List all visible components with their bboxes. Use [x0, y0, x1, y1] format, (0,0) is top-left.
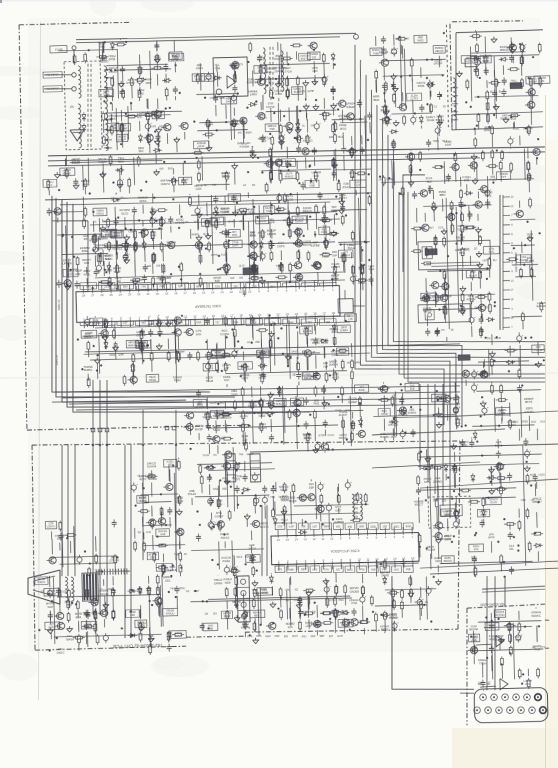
svg-text:C3U: C3U — [215, 285, 220, 288]
svg-text:71M: 71M — [215, 66, 221, 70]
svg-text:H3B: H3B — [310, 184, 315, 188]
svg-text:407: 407 — [430, 226, 435, 229]
svg-text:ZLM47: ZLM47 — [339, 413, 348, 417]
svg-text:B4P: B4P — [148, 322, 154, 326]
wire: verticals into CRT PCB block with junction pads — [87, 378, 181, 639]
svg-text:5DEZ: 5DEZ — [224, 614, 231, 618]
svg-text:LN9: LN9 — [340, 351, 345, 355]
svg-text:+: + — [397, 621, 399, 625]
svg-text:+: + — [267, 495, 269, 499]
svg-text:+: + — [440, 125, 442, 129]
component cluster 13 (discrete parts around x372 y35) — [370, 32, 448, 130]
svg-text:+: + — [522, 333, 524, 337]
svg-text:CTS: CTS — [540, 646, 545, 649]
svg-text:9V5K5: 9V5K5 — [408, 411, 417, 415]
svg-text:24: 24 — [119, 293, 123, 297]
svg-text:GZH: GZH — [196, 187, 202, 191]
svg-text:11: 11 — [239, 290, 243, 294]
svg-text:+: + — [122, 177, 124, 181]
component cluster 28 (discrete parts around x186 y388) — [183, 384, 371, 457]
svg-text:PC: PC — [441, 329, 445, 332]
component cluster 19 (discrete parts around x95 y195) — [93, 191, 187, 290]
svg-text:99V: 99V — [138, 149, 143, 153]
svg-text:L71M9: L71M9 — [525, 259, 534, 263]
svg-text:+: + — [459, 508, 461, 512]
svg-text:96N: 96N — [123, 285, 128, 288]
svg-text:L7D: L7D — [540, 79, 545, 83]
pin header comb — [96, 568, 130, 575]
svg-text:830: 830 — [336, 525, 341, 528]
svg-text:0SR: 0SR — [274, 635, 279, 638]
svg-text:7AF10: 7AF10 — [96, 211, 104, 215]
svg-text:31P: 31P — [230, 277, 235, 280]
svg-text:16: 16 — [277, 538, 281, 542]
wire: horizontal buses around IC801 — [45, 190, 460, 361]
svg-text:TPT: TPT — [501, 175, 506, 179]
svg-text:U8R: U8R — [75, 272, 81, 276]
svg-text:U7UV: U7UV — [327, 434, 334, 437]
svg-text:SG: SG — [283, 219, 287, 222]
svg-text:3VP: 3VP — [332, 253, 338, 257]
svg-text:C76A: C76A — [275, 92, 282, 96]
svg-text:+: + — [236, 564, 238, 568]
svg-text:+: + — [476, 383, 478, 387]
svg-text:FAA: FAA — [369, 267, 375, 271]
svg-text:IC801 TA7698AP: IC801 TA7698AP — [194, 304, 221, 309]
svg-text:EANA9: EANA9 — [537, 304, 547, 308]
component cluster 15 (discrete parts around x372 y128) — [389, 123, 539, 151]
svg-text:NU27C: NU27C — [260, 525, 269, 529]
svg-text:18: 18 — [174, 291, 178, 295]
svg-text:08B: 08B — [208, 626, 213, 630]
deflection yoke DY901 — [27, 570, 74, 605]
svg-text:+: + — [90, 317, 92, 321]
svg-text:PM2: PM2 — [313, 401, 319, 405]
transformer T801 (power) — [64, 61, 114, 152]
svg-text:5P1H: 5P1H — [213, 428, 220, 432]
svg-text:2D: 2D — [443, 105, 446, 108]
svg-text:N92G: N92G — [281, 498, 288, 502]
svg-text:+: + — [490, 188, 492, 192]
svg-text:MPM: MPM — [355, 361, 361, 364]
svg-text:H0T7: H0T7 — [483, 259, 490, 262]
svg-text:LSFBE: LSFBE — [311, 244, 320, 248]
svg-text:BG240: BG240 — [469, 627, 478, 631]
svg-text:+: + — [487, 406, 489, 410]
svg-text:1M: 1M — [204, 613, 208, 616]
svg-text:ESHC: ESHC — [64, 171, 71, 175]
svg-text:BDTFS: BDTFS — [92, 321, 101, 325]
svg-text:TB2: TB2 — [270, 496, 275, 499]
svg-text:4E4: 4E4 — [252, 591, 258, 595]
svg-text:87HC: 87HC — [343, 185, 350, 189]
svg-text:8V: 8V — [347, 362, 350, 365]
svg-text:00R: 00R — [130, 613, 135, 617]
component cluster 26 (discrete parts around x130 y460) — [131, 457, 188, 578]
svg-text:BVLE: BVLE — [348, 246, 355, 250]
svg-text:+: + — [282, 193, 284, 197]
svg-text:2N6KN: 2N6KN — [329, 363, 338, 367]
IF/chroma sub-circuit boxes X401 X402 — [401, 173, 497, 529]
svg-text:3P23: 3P23 — [340, 127, 347, 131]
svg-text:AU4C7: AU4C7 — [146, 475, 156, 479]
svg-text:B28: B28 — [215, 279, 221, 283]
svg-text:DN9L: DN9L — [418, 84, 426, 88]
svg-text:HS8L: HS8L — [83, 272, 91, 276]
svg-text:2V8DC: 2V8DC — [241, 365, 250, 369]
component cluster 37 (discrete parts around x188 y576) — [185, 571, 374, 645]
component cluster 17 (discrete parts around x45 y195) — [46, 197, 95, 230]
svg-text:1GS: 1GS — [277, 525, 282, 528]
svg-text:6B0G: 6B0G — [254, 613, 261, 617]
crystal X801 — [338, 289, 365, 312]
component cluster 3 (discrete parts around x100 y100) — [101, 98, 188, 154]
svg-text:EH3: EH3 — [76, 615, 82, 619]
component cluster 30 (discrete parts around x272 y482) — [270, 478, 369, 535]
svg-text:PPM: PPM — [359, 569, 364, 572]
svg-text:CBUK: CBUK — [176, 499, 184, 503]
svg-text:RH5VZ: RH5VZ — [285, 174, 294, 178]
svg-text:MFN: MFN — [258, 58, 264, 62]
svg-text:3Z9: 3Z9 — [442, 499, 447, 502]
svg-text:2UB84: 2UB84 — [340, 328, 349, 332]
svg-text:+: + — [210, 361, 212, 365]
svg-text:6UUR: 6UUR — [333, 613, 341, 617]
component cluster 11 (discrete parts around x245 y182) — [243, 177, 369, 205]
component cluster 18 (discrete parts around x55 y222) — [55, 219, 113, 291]
svg-text:KPERE: KPERE — [175, 221, 185, 225]
svg-text:54E: 54E — [348, 526, 353, 529]
svg-text:+: + — [265, 251, 267, 255]
svg-text:LNZG: LNZG — [539, 473, 546, 476]
svg-text:BBN: BBN — [440, 193, 446, 197]
svg-text:R40: R40 — [86, 285, 91, 288]
edge connector pin column — [48, 86, 558, 583]
svg-text:NAP: NAP — [47, 605, 53, 609]
svg-text:13: 13 — [303, 537, 307, 541]
svg-text:H4GC: H4GC — [57, 650, 65, 654]
svg-text:SGH34: SGH34 — [147, 464, 157, 468]
svg-text:A92N: A92N — [196, 66, 203, 70]
svg-text:12: 12 — [230, 290, 234, 294]
svg-text:UPG: UPG — [307, 321, 313, 324]
svg-text:035: 035 — [312, 55, 317, 59]
svg-text:+: + — [128, 252, 130, 256]
svg-text:2KG: 2KG — [196, 332, 202, 336]
svg-text:9LT: 9LT — [472, 638, 477, 642]
svg-text:9VM: 9VM — [406, 526, 411, 529]
wire: full-width horizontal supply buses — [48, 144, 545, 168]
svg-text:U40: U40 — [116, 279, 122, 283]
svg-text:U6F: U6F — [526, 129, 532, 133]
svg-text:V4C: V4C — [474, 547, 479, 551]
svg-text:GZBZN: GZBZN — [334, 520, 344, 524]
svg-text:GS: GS — [186, 590, 190, 593]
svg-text:+: + — [213, 496, 215, 500]
svg-text:SFE8: SFE8 — [521, 421, 528, 424]
svg-text:82V: 82V — [292, 411, 297, 414]
component cluster 31 (discrete parts around x186 y532) — [191, 530, 265, 579]
svg-text:K53: K53 — [540, 421, 545, 424]
svg-text:+: + — [136, 482, 138, 486]
svg-text:BE4: BE4 — [324, 525, 329, 528]
svg-text:CC25A: CC25A — [220, 332, 229, 336]
component cluster 36 (discrete parts around x38 y576) — [35, 572, 187, 658]
svg-text:+: + — [263, 397, 265, 401]
component cluster 40 (discrete parts around x508 y197) — [505, 197, 547, 330]
svg-text:NVC: NVC — [394, 569, 400, 572]
svg-text:43L4: 43L4 — [249, 234, 256, 238]
border: CRT socket board outline (dash-dot) — [464, 604, 548, 725]
svg-text:T27: T27 — [215, 321, 220, 324]
svg-text:+: + — [101, 263, 103, 267]
svg-text:M6LC: M6LC — [457, 239, 465, 243]
svg-text:CG3: CG3 — [308, 316, 314, 319]
svg-text:FVH0M: FVH0M — [240, 145, 250, 149]
svg-text:SD: SD — [138, 531, 142, 534]
svg-text:LEAHF: LEAHF — [168, 568, 177, 572]
svg-text:MML4: MML4 — [304, 436, 312, 440]
svg-text:REG: REG — [394, 525, 400, 528]
svg-text:[R]: [R] — [70, 105, 74, 109]
svg-text:CNP3: CNP3 — [277, 244, 285, 248]
component cluster 14 (discrete parts around x455 y32) — [455, 28, 551, 133]
svg-text:AZ7: AZ7 — [336, 569, 341, 572]
svg-text:U2B8: U2B8 — [222, 210, 230, 214]
svg-text:G0HP: G0HP — [307, 90, 314, 93]
wire: verticals to video output stage — [418, 383, 453, 518]
svg-text:1V7M: 1V7M — [171, 58, 179, 62]
component cluster 21 (discrete parts around x186 y195) — [185, 190, 354, 298]
flyback transformer core T901 — [82, 573, 99, 601]
svg-text:ERP: ERP — [119, 353, 125, 356]
svg-text:0F: 0F — [239, 220, 242, 223]
svg-text:FUSE: FUSE — [55, 48, 63, 52]
svg-text:+: + — [259, 496, 261, 500]
svg-text:IC501 uPC1420CA: IC501 uPC1420CA — [330, 548, 360, 553]
svg-text:01L: 01L — [509, 547, 514, 551]
svg-text:75E: 75E — [301, 526, 306, 529]
svg-text:18V0: 18V0 — [445, 537, 452, 541]
svg-text:96B: 96B — [326, 321, 331, 324]
svg-text:14: 14 — [294, 537, 298, 541]
svg-text:+: + — [214, 521, 216, 525]
svg-text:+: + — [397, 46, 399, 50]
svg-text:1AR9: 1AR9 — [250, 92, 258, 96]
svg-text:+: + — [155, 216, 157, 220]
svg-text:B7FGL: B7FGL — [436, 118, 445, 122]
svg-text:M4H: M4H — [265, 635, 271, 638]
svg-text:NAE0: NAE0 — [164, 277, 171, 280]
svg-text:F9B: F9B — [406, 569, 411, 572]
svg-text:R243 1K: R243 1K — [55, 355, 59, 366]
svg-text:0U3A: 0U3A — [203, 454, 210, 457]
svg-text:5HHKC: 5HHKC — [531, 614, 541, 618]
svg-text:FF9UU: FF9UU — [166, 612, 175, 616]
svg-text:9AST: 9AST — [197, 403, 204, 407]
border: CRT PCB block outline (dash-dot) — [30, 435, 465, 650]
svg-text:VUZ: VUZ — [146, 531, 152, 534]
svg-text:E70P: E70P — [319, 434, 326, 437]
svg-text:RR: RR — [239, 277, 243, 280]
component cluster 9 (discrete parts around x240 y148) — [246, 144, 337, 184]
svg-text:33S: 33S — [445, 513, 450, 517]
svg-text:DVUT: DVUT — [175, 634, 183, 638]
transformer T402 and regulator IC802 box — [213, 34, 361, 111]
svg-text:P93M: P93M — [223, 559, 231, 563]
svg-text:GTEGK: GTEGK — [109, 559, 119, 563]
svg-text:89G: 89G — [220, 402, 225, 405]
svg-text:S40V: S40V — [226, 100, 233, 104]
svg-text:7FBHP: 7FBHP — [346, 105, 355, 109]
wire: top double bus pair — [76, 33, 356, 43]
svg-text:EM: EM — [285, 589, 289, 592]
svg-text:BG: BG — [213, 612, 217, 615]
svg-text:5T6: 5T6 — [278, 569, 283, 572]
svg-text:TGU8: TGU8 — [206, 379, 214, 383]
component cluster 8 (discrete parts around x250 y100) — [248, 97, 347, 154]
svg-text:UFH7N: UFH7N — [62, 261, 71, 265]
component cluster 23 (discrete parts around x186 y316) — [183, 312, 361, 388]
svg-text:+: + — [108, 633, 110, 637]
svg-text:4Z: 4Z — [243, 184, 246, 187]
svg-text:Z9E: Z9E — [255, 341, 260, 344]
svg-text:A5U: A5U — [302, 635, 307, 638]
svg-text:D1U5: D1U5 — [490, 500, 497, 504]
svg-text:+: + — [477, 369, 479, 373]
svg-text:N423: N423 — [417, 39, 424, 43]
component cluster 7 (discrete parts around x186 y95) — [192, 93, 252, 152]
video chroma IC501 uPC1420CA — [271, 527, 419, 571]
svg-text:BCS: BCS — [238, 63, 244, 66]
svg-text:7NK: 7NK — [239, 453, 244, 456]
component cluster 1 (discrete parts around x45 y42) — [58, 38, 127, 65]
component cluster 35 (discrete parts around x372 y558) — [376, 558, 419, 580]
svg-text:FT: FT — [302, 350, 306, 353]
svg-text:459: 459 — [159, 168, 164, 171]
component cluster 12 (discrete parts around x330 y100) — [331, 99, 374, 181]
bold designator labels — [239, 82, 529, 365]
tuner block inner outline and IF amp — [450, 30, 546, 130]
svg-text:10: 10 — [248, 290, 252, 294]
svg-text:GTHN: GTHN — [211, 254, 218, 257]
svg-text:LEM4: LEM4 — [510, 82, 518, 86]
svg-text:20: 20 — [156, 292, 160, 296]
svg-text:PDC: PDC — [489, 250, 495, 254]
svg-text:6HDG: 6HDG — [105, 257, 113, 261]
svg-text:GCH: GCH — [337, 635, 343, 638]
border: tuner/IF block outline (dash-dot) — [446, 20, 526, 130]
svg-text:RUCF: RUCF — [289, 499, 297, 503]
svg-text:MK87: MK87 — [339, 117, 347, 121]
svg-text:K39: K39 — [84, 261, 90, 265]
CRT socket connector V901 — [460, 687, 548, 723]
svg-text:M5K26: M5K26 — [500, 48, 509, 52]
svg-text:9E9L8: 9E9L8 — [222, 174, 231, 178]
svg-text:SZF73: SZF73 — [204, 77, 212, 81]
svg-text:406M: 406M — [455, 249, 461, 252]
svg-text:RSH: RSH — [292, 635, 298, 638]
svg-text:+: + — [525, 42, 527, 46]
svg-text:MZ8: MZ8 — [225, 580, 231, 584]
svg-text:80E: 80E — [222, 488, 227, 491]
svg-text:9BP: 9BP — [320, 635, 325, 638]
svg-text:6S: 6S — [451, 329, 454, 332]
svg-text:L6PP: L6PP — [232, 243, 239, 247]
svg-text:MPD: MPD — [317, 315, 323, 318]
svg-text:1CDU: 1CDU — [329, 599, 336, 602]
svg-text:UP24F: UP24F — [434, 61, 443, 65]
svg-text:+: + — [236, 93, 238, 97]
svg-text:R2B3 1K: R2B3 1K — [57, 299, 61, 310]
svg-text:RCK5N: RCK5N — [496, 613, 505, 617]
svg-text:7P8: 7P8 — [141, 285, 146, 288]
svg-text:C166: C166 — [332, 353, 339, 357]
svg-text:0P58: 0P58 — [109, 57, 116, 61]
border: main chassis block outline (dash-dot) — [17, 20, 250, 431]
svg-text:KC82V: KC82V — [466, 297, 475, 301]
svg-text:8E8BF: 8E8BF — [529, 80, 537, 84]
svg-text:+: + — [474, 315, 476, 319]
svg-text:5S95: 5S95 — [109, 354, 116, 357]
svg-text:VKK: VKK — [222, 477, 227, 480]
svg-text:DAF: DAF — [196, 321, 202, 324]
svg-text:TB85: TB85 — [433, 140, 440, 143]
svg-text:+: + — [229, 565, 231, 569]
svg-text:+: + — [416, 115, 418, 119]
svg-text:2HCH: 2HCH — [248, 546, 256, 550]
svg-text:GD1: GD1 — [165, 578, 171, 582]
svg-text:CUL: CUL — [324, 568, 330, 571]
svg-text:13: 13 — [220, 290, 224, 294]
svg-text:G3F: G3F — [123, 321, 128, 324]
svg-text:BM4: BM4 — [373, 98, 379, 102]
svg-text:2A: 2A — [247, 341, 250, 344]
svg-text:4GU5: 4GU5 — [332, 375, 340, 379]
svg-text:MKG23: MKG23 — [388, 423, 398, 427]
svg-text:U0B: U0B — [128, 231, 133, 234]
svg-text:34C0: 34C0 — [236, 556, 243, 559]
svg-text:S2F: S2F — [178, 285, 183, 288]
svg-text:+: + — [389, 114, 391, 118]
svg-text:+: + — [150, 121, 152, 125]
svg-text:19T: 19T — [379, 178, 384, 181]
svg-text:GU967: GU967 — [215, 514, 224, 518]
AC input terminals and fuse F801 — [42, 45, 77, 92]
svg-text:1SAT: 1SAT — [445, 143, 452, 147]
svg-text:DSF0T: DSF0T — [295, 219, 304, 223]
svg-text:DDE: DDE — [371, 525, 377, 528]
svg-text:FG5C: FG5C — [389, 615, 397, 619]
svg-text:RPR: RPR — [484, 128, 490, 132]
component cluster 4 (discrete parts around x45 y156) — [42, 152, 192, 196]
svg-text:Z8T: Z8T — [329, 635, 334, 638]
svg-text:1NM7U: 1NM7U — [160, 182, 170, 186]
svg-text:12: 12 — [312, 537, 316, 541]
component cluster 24 (discrete parts around x412 y178) — [409, 176, 502, 342]
svg-text:BFVF: BFVF — [525, 400, 533, 404]
svg-text:+: + — [200, 206, 202, 210]
svg-text:U2H7U: U2H7U — [47, 525, 56, 529]
svg-text:13RAV: 13RAV — [108, 117, 117, 121]
svg-text:+: + — [355, 274, 357, 278]
svg-text:+: + — [323, 482, 325, 486]
svg-text:BRK: BRK — [150, 233, 156, 237]
svg-text:RN: RN — [238, 132, 242, 135]
svg-text:0RD: 0RD — [359, 526, 364, 529]
svg-text:+: + — [329, 238, 331, 242]
svg-text:BENAE: BENAE — [302, 243, 312, 247]
